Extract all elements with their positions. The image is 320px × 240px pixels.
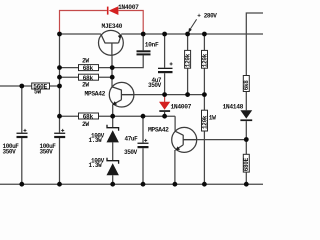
wire top rail left (collector lead) xyxy=(60,33,101,35)
node MJE340 base / 68k1 right xyxy=(110,65,115,70)
node zener top xyxy=(110,114,115,119)
zener Z1 100V 1.3W xyxy=(107,125,119,143)
wire 68k row1 + 10nF bottom corner xyxy=(60,55,144,67)
svg-text:1N4007: 1N4007 xyxy=(118,4,139,11)
wire MPSA42#2 collector entry xyxy=(174,116,176,131)
resistor 68k #3 xyxy=(79,113,99,121)
svg-text:350V: 350V xyxy=(124,149,138,156)
arrow Q2 emitter xyxy=(112,101,117,105)
node gnd Q3 emitter xyxy=(173,182,178,187)
svg-text:1.3W: 1.3W xyxy=(89,162,103,169)
node 560E right xyxy=(57,84,62,89)
wire zener column xyxy=(112,116,114,184)
svg-text:1W: 1W xyxy=(209,115,216,122)
node gnd 120k 1W xyxy=(202,182,207,187)
wire top-right corner xyxy=(246,13,263,34)
transistor Q1 MJE340 xyxy=(99,30,124,55)
diode D1 1N4007 (red, pointing left) xyxy=(107,6,119,15)
svg-text:120k: 120k xyxy=(201,115,208,129)
svg-text:68k: 68k xyxy=(83,114,94,121)
node 120k#1 top on rail xyxy=(185,32,190,37)
transistor Q3 MPSA42 (protection) xyxy=(172,127,197,152)
svg-text:2W: 2W xyxy=(82,58,89,65)
resistor 120k #2 (vertical) xyxy=(201,50,208,68)
wire ground rail xyxy=(0,183,263,185)
node gnd zener xyxy=(110,182,115,187)
node gnd 100uF#1 xyxy=(19,182,24,187)
node red loop right on rail xyxy=(141,32,146,37)
svg-text:1N4148: 1N4148 xyxy=(223,104,244,111)
node 4u7 top on rail xyxy=(162,32,167,37)
node diode2 cathode xyxy=(162,114,167,119)
zener Z2 100V 1.3W xyxy=(107,158,119,176)
svg-text:+ 280V: + 280V xyxy=(197,13,217,20)
svg-text:1N4007: 1N4007 xyxy=(171,104,192,111)
svg-text:6k8: 6k8 xyxy=(243,80,250,91)
capacitor 100uF #2 xyxy=(54,129,65,138)
diode D2 1N4007 (red, pointing down) xyxy=(159,102,170,112)
red wire loop top xyxy=(60,11,144,34)
resistor 6k8 (vertical) xyxy=(243,76,250,92)
node raw rail / red loop left xyxy=(57,32,62,37)
wire MPSA42#1 base line to divider xyxy=(121,94,204,96)
resistor 560E box xyxy=(32,83,50,91)
wire MPSA42#1 emitter down xyxy=(112,105,114,117)
svg-text:68k: 68k xyxy=(83,65,94,72)
svg-text:120k: 120k xyxy=(201,53,208,67)
capacitor 100uF #1 xyxy=(17,129,28,138)
svg-text:2W: 2W xyxy=(82,121,89,128)
svg-text:680E: 680E xyxy=(243,157,250,171)
wire 47uF column xyxy=(142,116,144,184)
svg-text:MPSA42: MPSA42 xyxy=(148,127,169,134)
node gnd 100uF#2 xyxy=(57,182,62,187)
wire top rail right (output) xyxy=(121,33,263,35)
node 120k#2 top on rail xyxy=(202,32,207,37)
svg-text:350V: 350V xyxy=(148,82,162,89)
svg-text:2W: 2W xyxy=(82,82,89,89)
node 68k1 left xyxy=(57,65,62,70)
svg-text:10nF: 10nF xyxy=(145,41,159,48)
arrow Q3 emitter xyxy=(175,146,180,150)
wire 120k 1W column xyxy=(203,95,205,185)
wire 100uF#2 bottom lead xyxy=(59,138,61,184)
transistor Q2 MPSA42 (error amp) xyxy=(109,82,134,107)
node 47uF top xyxy=(141,114,146,119)
wire 68k row3 xyxy=(60,115,176,117)
wire MPSA42#2 emitter down xyxy=(174,150,176,184)
resistor 120k #1 (vertical) xyxy=(184,50,191,68)
arrow Q1 emitter xyxy=(118,34,122,38)
node gnd 680E xyxy=(244,182,249,187)
node 120k#2 bottom xyxy=(202,92,207,97)
wire diode2 cathode to node xyxy=(164,112,166,116)
svg-text:350V: 350V xyxy=(3,148,17,155)
wire 10nF top lead xyxy=(142,34,144,50)
resistor 68k #1 xyxy=(79,65,99,73)
resistor 68k #2 xyxy=(79,74,99,82)
svg-text:MPSA42: MPSA42 xyxy=(85,91,106,98)
node 4u7 bottom on divider line xyxy=(162,92,167,97)
resistor 680E (vertical) xyxy=(243,154,250,172)
svg-text:MJE340: MJE340 xyxy=(102,23,123,30)
wire right column 6k8/1N4148/680E xyxy=(245,34,247,184)
svg-text:120k: 120k xyxy=(184,53,191,67)
wire MJE340 base down xyxy=(111,55,113,87)
svg-text:350V: 350V xyxy=(40,148,54,155)
svg-text:5W: 5W xyxy=(34,89,41,96)
node 68k2 right xyxy=(110,75,115,80)
node 68k2 left xyxy=(57,75,62,80)
node 120k#1 bottom xyxy=(185,92,190,97)
resistor 120k 1W (vertical) xyxy=(201,110,208,131)
red wire diode2 anode lead xyxy=(164,95,166,102)
node gnd 47uF xyxy=(141,182,146,187)
svg-text:47uF: 47uF xyxy=(125,136,139,143)
node 68k3 left xyxy=(57,114,62,119)
output arrow +280V xyxy=(188,19,196,33)
capacitor 10nF xyxy=(137,50,151,55)
wire raw input row y=86 xyxy=(0,85,60,87)
wire 120k#2 leads xyxy=(203,34,205,95)
wire 100uF#1 column xyxy=(21,86,23,184)
wire 68k row2 xyxy=(60,76,113,78)
capacitor 4u7 350V xyxy=(158,62,173,73)
diode D3 1N4148 (black, pointing down) xyxy=(240,110,252,121)
wire left column x=60 xyxy=(59,34,61,133)
node 560E left xyxy=(19,84,24,89)
wire MPSA42#2 base line xyxy=(183,139,246,141)
node 680E top xyxy=(244,137,249,142)
svg-text:1.3W: 1.3W xyxy=(89,137,103,144)
wire 120k#1 leads xyxy=(187,34,189,95)
capacitor 47uF 350V xyxy=(138,139,149,148)
wire 4u7 column xyxy=(164,34,166,95)
